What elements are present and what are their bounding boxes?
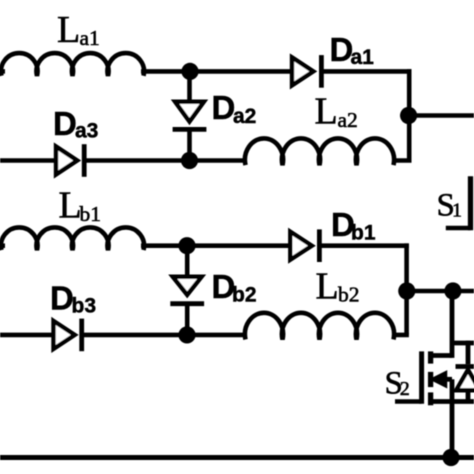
transistor S2: body arrow stub — [445, 377, 452, 382]
transistor S2: channel drain bar — [428, 351, 433, 363]
transistor S2: body-source tie vertical — [450, 379, 455, 401]
diode D_a1 — [292, 57, 313, 85]
wire right column A — [407, 69, 412, 160]
wire right column B — [404, 243, 409, 335]
wire: S2 drain up to junction row — [450, 291, 455, 358]
wire row A1: D_a1 to right column A — [321, 69, 411, 74]
node: junction dot row A2 / diode column — [181, 152, 198, 169]
node: junction dot row A1 / diode column — [181, 63, 198, 80]
transistor S2: channel body bar — [428, 372, 433, 387]
transistor S2: gate lead wire — [395, 399, 422, 404]
body diode of S2: triangle apex up (clipped at edge) — [456, 370, 474, 391]
svg-text:D: D — [50, 280, 74, 317]
wire row B2: L_b2 to right column B — [392, 333, 409, 338]
wire diode column: D_b2 down to row B2 — [185, 304, 190, 335]
wire row B1: coil to diode D_b1 — [141, 243, 291, 248]
node: junction dot row B2 / diode column — [178, 326, 195, 343]
body diode of S2: top connection wire — [452, 341, 474, 346]
svg-text:1: 1 — [452, 200, 462, 222]
svg-text:b3: b3 — [72, 295, 97, 318]
svg-text:b2: b2 — [338, 283, 360, 307]
bottom rail wire — [0, 455, 474, 460]
wire row A2 left stub to D_a3 — [0, 158, 57, 163]
svg-text:a3: a3 — [75, 120, 98, 143]
diode D_a2 — [175, 102, 204, 122]
svg-text:2: 2 — [400, 378, 410, 400]
node: junction dot row B1 / diode column — [178, 237, 195, 254]
wire row B2: D_b3 to L_b2 — [82, 333, 247, 338]
wire to right edge (to S1 drain) — [409, 113, 474, 118]
inductor L_a1 coil — [1, 53, 144, 76]
transistor S2: source lead — [433, 399, 452, 404]
wire row A1: coil to diode D_a1 — [141, 69, 293, 74]
body diode of S2: anode vertical — [466, 390, 471, 401]
svg-text:D: D — [53, 105, 77, 142]
svg-text:L: L — [315, 91, 338, 133]
node: junction dot on bottom rail — [442, 449, 459, 466]
node: junction dot right column A — [400, 107, 417, 124]
wire: S2 source down to bottom rail — [450, 402, 455, 458]
diode D_a3 — [56, 147, 77, 175]
svg-text:a1: a1 — [80, 26, 100, 50]
diode D_b2 — [173, 277, 202, 295]
wire row A1 left stub — [0, 69, 5, 74]
body diode of S2: cathode bar — [456, 364, 474, 369]
svg-text:b1: b1 — [351, 222, 376, 245]
svg-text:a1: a1 — [351, 46, 375, 69]
wire diode column: D_a2 down to row A2 — [187, 129, 192, 160]
wire junction row to right edge (to S1 source) — [407, 289, 474, 294]
diode D_b3 — [54, 321, 75, 349]
wire row A2: D_a3 to L_a2 — [84, 158, 247, 163]
inductor L_b2 coil — [245, 313, 394, 340]
transistor S1: gate lead wire — [446, 226, 471, 231]
wire diode column: row A1 down to D_a2 — [187, 71, 192, 103]
transistor S1: gate bar — [468, 176, 473, 230]
svg-text:L: L — [316, 266, 339, 308]
transistor S2: channel source bar — [428, 392, 433, 405]
inductor L_a2 coil — [245, 138, 394, 165]
wire row B1: D_b1 to right column B — [319, 243, 409, 248]
diode D_b1 — [290, 232, 312, 260]
svg-text:a2: a2 — [338, 108, 358, 132]
svg-text:L: L — [57, 9, 80, 51]
wire row B1 left stub — [0, 243, 5, 248]
wire diode column: row B1 down to D_b2 — [185, 246, 190, 278]
wire row B2 left stub to D_b3 — [0, 333, 55, 338]
transistor S2: gate bar — [419, 351, 424, 403]
wire row A2: L_a2 to right column A — [392, 158, 412, 163]
inductor L_b1 coil — [1, 227, 144, 250]
body diode of S2: cathode vertical — [466, 341, 471, 365]
svg-text:L: L — [59, 185, 82, 227]
body diode of S2: bottom connection wire — [452, 399, 474, 404]
svg-text:b2: b2 — [232, 284, 257, 307]
transistor S2: drain lead — [433, 353, 452, 358]
svg-text:b1: b1 — [80, 202, 102, 226]
svg-text:a2: a2 — [233, 105, 256, 128]
svg-text:D: D — [212, 89, 236, 126]
node: junction dot right column B — [398, 282, 415, 299]
node: junction dot at S2 drain column — [444, 282, 461, 299]
transistor S2: body arrow pointing into channel — [431, 371, 447, 387]
